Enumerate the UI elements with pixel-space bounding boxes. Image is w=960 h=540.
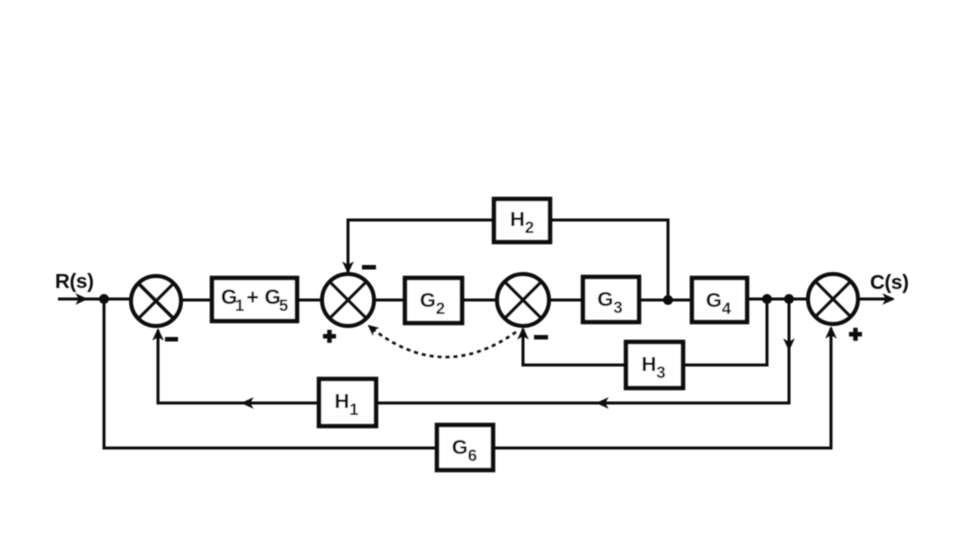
block G6 bbox=[437, 425, 493, 470]
block G3 bbox=[583, 277, 639, 322]
wire: node B up to H2 level bbox=[667, 220, 670, 300]
summing junction S3 bbox=[497, 274, 549, 326]
svg-text:5: 5 bbox=[279, 297, 288, 315]
wire: S1 to block G1+G5 bbox=[181, 299, 210, 302]
wire: node A down to G6 level bbox=[103, 299, 106, 448]
wire: H1 right horizontal with left arrow bbox=[378, 402, 791, 405]
wire: up into S3 bottom with arrow bbox=[522, 329, 525, 367]
block H2 bbox=[494, 199, 550, 242]
wire: H3 right horizontal bbox=[685, 364, 769, 367]
minus sign at S2 top input bbox=[362, 265, 376, 270]
wire: G2 to S3 bbox=[464, 299, 497, 302]
wire: H2 right horizontal bbox=[552, 219, 670, 222]
wire: G4 to S4 bbox=[749, 298, 808, 301]
wire: H2 left horizontal bbox=[348, 219, 492, 222]
block G4 bbox=[692, 278, 747, 322]
wire: node D down with mid arrow bbox=[788, 299, 791, 404]
minus sign at S1 bottom input bbox=[165, 337, 178, 342]
wire: S4 output to C(s) with arrow bbox=[859, 298, 893, 301]
minus sign at S3 bottom input bbox=[534, 335, 548, 340]
dashed curved arrow from S3 to S2 bbox=[369, 326, 516, 357]
svg-text:R(s): R(s) bbox=[55, 270, 94, 293]
node D (takeoff to H1) bbox=[784, 294, 794, 304]
svg-text:+: + bbox=[247, 286, 259, 309]
wire: G6 right horizontal bbox=[493, 447, 833, 450]
wire: up into S1 bottom with arrow bbox=[157, 330, 160, 405]
block H3 bbox=[626, 342, 683, 388]
summing junction S1 bbox=[131, 276, 181, 326]
wire: R(s) input with arrow bbox=[58, 298, 131, 301]
summing junction S2 bbox=[322, 274, 374, 326]
wire: S2 to G2 bbox=[374, 299, 404, 302]
wire: down into S2 top with arrow bbox=[347, 219, 350, 273]
summing junction S4 bbox=[808, 274, 858, 324]
node B (takeoff between G3 and G4) bbox=[663, 295, 673, 305]
node A (input takeoff) bbox=[99, 294, 109, 304]
plus sign at S2 bottom-left input bbox=[323, 330, 336, 343]
svg-text:C(s): C(s) bbox=[870, 271, 909, 294]
plus sign at S4 bottom input bbox=[849, 328, 862, 341]
wire: H3 left horizontal bbox=[523, 364, 624, 367]
wire: G1+G5 to S2 bbox=[299, 299, 322, 302]
svg-text:1: 1 bbox=[235, 297, 244, 315]
wire: up into S4 bottom with arrow bbox=[830, 328, 833, 450]
block G2 bbox=[405, 278, 462, 323]
wire: G3 to G4 bbox=[641, 299, 692, 302]
block H1 bbox=[319, 379, 376, 426]
wire: H1 left horizontal with left arrow bbox=[157, 402, 318, 405]
wire: node C down to H3 level bbox=[766, 299, 769, 365]
node C (takeoff to H3) bbox=[762, 294, 772, 304]
block G1+G5 bbox=[212, 278, 297, 321]
wire: G6 left horizontal bbox=[103, 447, 438, 450]
wire: S3 to G3 bbox=[549, 299, 582, 302]
